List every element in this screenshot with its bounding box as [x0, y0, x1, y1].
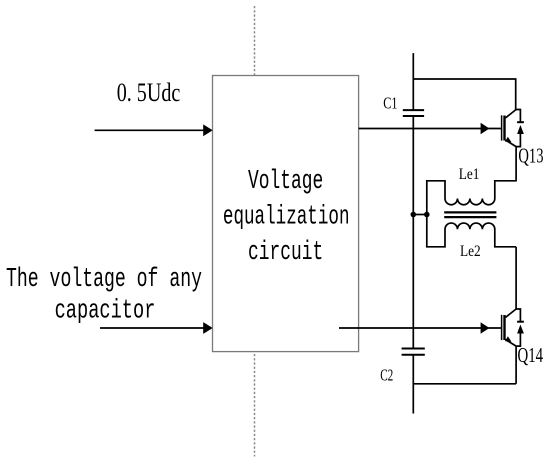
wire: diode to emitter jog (Q14) — [516, 334, 521, 347]
svg-text:equalization: equalization — [223, 202, 350, 232]
Q14 emitter arrow — [505, 336, 512, 342]
Q13 gate bar — [501, 115, 503, 140]
svg-text:C2: C2 — [380, 365, 393, 384]
arrowhead on Q13 gate wire — [481, 123, 490, 135]
wire: diode to emitter jog (Q13) — [516, 134, 521, 147]
svg-text:The voltage of any: The voltage of any — [6, 265, 202, 295]
wire: top rail to Q13 collector — [413, 79, 515, 110]
Q14 collector diagonal — [505, 309, 516, 318]
node dot on bus — [411, 212, 417, 218]
diode triangle (Q13) — [517, 125, 524, 134]
wire: bus tap — [413, 214, 427, 216]
svg-text:Le2: Le2 — [460, 243, 481, 260]
diode bar (Q13) — [517, 121, 524, 123]
wire: DC bus middle segment — [412, 116, 414, 349]
wire: bottom return to bus — [413, 383, 516, 385]
capacitor C1 — [403, 110, 424, 116]
Q14 gate bar — [501, 315, 503, 340]
inductor Le2 — [427, 215, 516, 247]
svg-text:Le1: Le1 — [459, 166, 480, 183]
transistor Q14 (IGBT with antiparallel diode) — [339, 247, 524, 384]
diode triangle (Q14) — [517, 325, 524, 334]
inductor Le1 — [427, 181, 516, 215]
wire: Q13 collector jog to diode — [516, 110, 521, 122]
wire: Q14 gate from box — [339, 327, 501, 329]
Q14 emitter diagonal — [505, 340, 516, 347]
svg-text:C1: C1 — [383, 94, 397, 113]
transformer core lines — [444, 212, 496, 217]
svg-text:0. 5Udc: 0. 5Udc — [117, 78, 181, 107]
svg-text:Q14: Q14 — [518, 343, 544, 367]
wire: Q14 collector jog to diode — [516, 309, 521, 321]
svg-text:circuit: circuit — [248, 238, 323, 268]
input arrow 2 (capacitor voltage into box) — [100, 322, 213, 334]
wire: DC bus upper segment — [412, 53, 414, 110]
arrowhead on Q14 gate wire — [481, 322, 490, 334]
dashed symmetry line (top) — [254, 6, 256, 76]
Q14 body bar — [503, 315, 505, 340]
wire: Q13 emitter down to Le1 — [515, 147, 517, 182]
Q13 emitter arrow — [505, 137, 512, 143]
wire: Q13 gate from box — [359, 128, 501, 130]
node dot at inductor tap — [424, 212, 430, 218]
capacitor C2 — [402, 349, 425, 355]
svg-text:Q13: Q13 — [518, 143, 543, 167]
wire: Q14 collector from Le2 — [515, 247, 517, 309]
input arrow 1 (0.5Udc into box) — [95, 124, 213, 136]
Q13 collector diagonal — [505, 110, 516, 119]
voltage equalization box — [213, 76, 359, 352]
wire: Q14 emitter down — [515, 346, 517, 384]
Q13 body bar — [503, 116, 505, 141]
wire: DC bus lower segment — [412, 355, 414, 414]
svg-text:capacitor: capacitor — [55, 297, 156, 327]
diode bar (Q14) — [517, 321, 524, 323]
dashed symmetry line (bottom) — [254, 354, 256, 457]
svg-text:Voltage: Voltage — [248, 167, 323, 197]
Q13 emitter diagonal — [505, 140, 516, 147]
transistor Q13 (IGBT with antiparallel diode) — [359, 110, 524, 182]
